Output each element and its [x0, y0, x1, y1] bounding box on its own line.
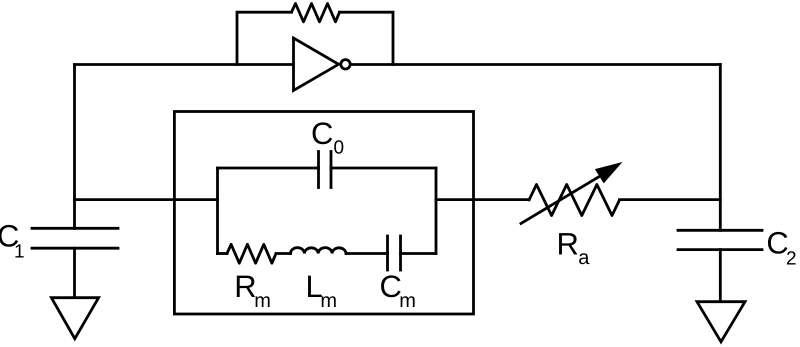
svg-text:m: m: [254, 290, 271, 312]
wire: C1 to ground: [73, 248, 76, 298]
wire: lead right of Cm: [401, 252, 437, 255]
wire: left vertical rail x=74: [73, 65, 76, 229]
capacitor Cm plates (motional capacitance): [388, 236, 401, 270]
resistor R1 (feedback resistor, top): [292, 4, 340, 22]
ground (right): [697, 302, 745, 342]
wire: top branch lead right of C0: [331, 167, 436, 170]
label Lm: [306, 269, 338, 312]
wire: feedback loop right side (339.5,12)-(393,12)-(393,64): [340, 12, 394, 64]
wire: lead between Rm and Lm: [276, 252, 291, 255]
svg-text:C: C: [311, 116, 333, 151]
svg-text:m: m: [320, 290, 337, 312]
wire: feedback loop left side (237,64)-(237,12)-(291.5,12): [237, 12, 292, 64]
label Rm: [234, 269, 271, 312]
resistor Ra (adjustable) zigzag: [529, 185, 620, 216]
ground (left): [51, 298, 98, 339]
label C2: [766, 226, 796, 270]
crystal X1 package box: [174, 112, 473, 315]
arrow head of Ra adjustment arrow: [595, 162, 623, 183]
wire: right vertical rail x=720: [719, 65, 722, 231]
label Cm: [380, 269, 416, 312]
wire: lower node line, left of crystal (74,199.5)-(217.5,199.5): [75, 198, 218, 201]
capacitor C2 plates: [678, 230, 762, 249]
inductor Lm (motional inductance): [291, 248, 347, 254]
wire: inverter output line y=64: [351, 63, 721, 66]
svg-text:2: 2: [786, 249, 797, 270]
wire: top branch lead left to C0: [218, 167, 319, 170]
wire: bottom branch lead to Rm: [218, 252, 228, 255]
op-amp U1 (CMOS inverter triangle): [294, 38, 339, 90]
arrow shaft across Ra: [521, 175, 602, 224]
wire: Ra to right rail (619.5,199.5)-(720,199.5): [620, 198, 721, 201]
wire: lead between Lm and Cm: [346, 252, 388, 255]
wire: C2 to ground: [719, 250, 722, 302]
svg-text:a: a: [578, 247, 590, 269]
inverter U1 output bubble: [341, 60, 350, 69]
wire: crystal inner loop right vertical: [435, 168, 438, 254]
label Ra: [557, 227, 591, 270]
label C0: [311, 116, 344, 159]
wire: lower node line, crystal to Ra (436,199.5)-(529,199.5): [436, 198, 529, 201]
wire: inverter input line y=64: [75, 63, 294, 66]
wire: crystal inner loop left vertical: [216, 168, 219, 254]
svg-text:1: 1: [14, 242, 25, 263]
label C1: [0, 219, 25, 263]
resistor Rm (motional resistance): [227, 244, 276, 263]
svg-text:m: m: [399, 290, 416, 312]
svg-text:0: 0: [334, 137, 345, 158]
capacitor C0 plates: [319, 152, 332, 188]
svg-text:R: R: [557, 227, 579, 262]
capacitor C1 plates: [32, 228, 118, 248]
